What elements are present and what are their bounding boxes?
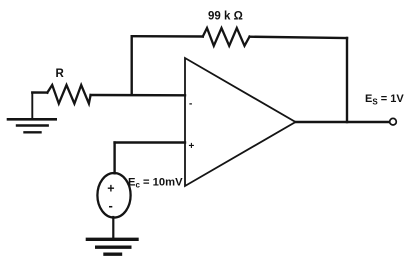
svg-text:Ec = 10mV: Ec = 10mV — [128, 177, 183, 190]
wire non-inverting input — [115, 141, 185, 143]
svg-text:99 k Ω: 99 k Ω — [208, 11, 243, 23]
svg-text:-: - — [109, 198, 113, 213]
wire feedback right vertical — [346, 38, 348, 122]
op-amp U1 triangle — [185, 58, 296, 186]
wire op-amp output — [296, 121, 390, 123]
wire feedback top-right segment — [250, 37, 347, 38]
ground bottom bar2 — [97, 245, 130, 248]
wire resistor R to op-amp inverting input — [91, 94, 185, 97]
resistor 99kOhm feedback zigzag — [203, 28, 250, 46]
ground left bar1 — [8, 118, 56, 121]
output terminal circle — [390, 118, 397, 125]
wire ground stub to resistor R — [32, 91, 47, 93]
ground left bar3 — [25, 131, 41, 133]
wire feedback top-left segment — [132, 35, 203, 38]
ground bottom bar1 — [87, 238, 137, 241]
resistor R zigzag — [47, 85, 90, 104]
svg-text:R: R — [56, 68, 65, 80]
ground bottom bar3 — [105, 252, 121, 255]
wire junction vertical to inverting input — [130, 36, 132, 94]
svg-text:+: + — [189, 141, 195, 152]
svg-text:ES = 1V: ES = 1V — [365, 93, 404, 107]
svg-text:-: - — [189, 99, 192, 110]
svg-text:+: + — [107, 181, 114, 195]
ground left bar2 — [17, 124, 48, 126]
voltage source Ec ellipse — [97, 173, 130, 218]
wire source top vertical — [113, 143, 115, 174]
ground left riser — [31, 93, 33, 119]
wire source bottom to ground — [112, 217, 114, 238]
